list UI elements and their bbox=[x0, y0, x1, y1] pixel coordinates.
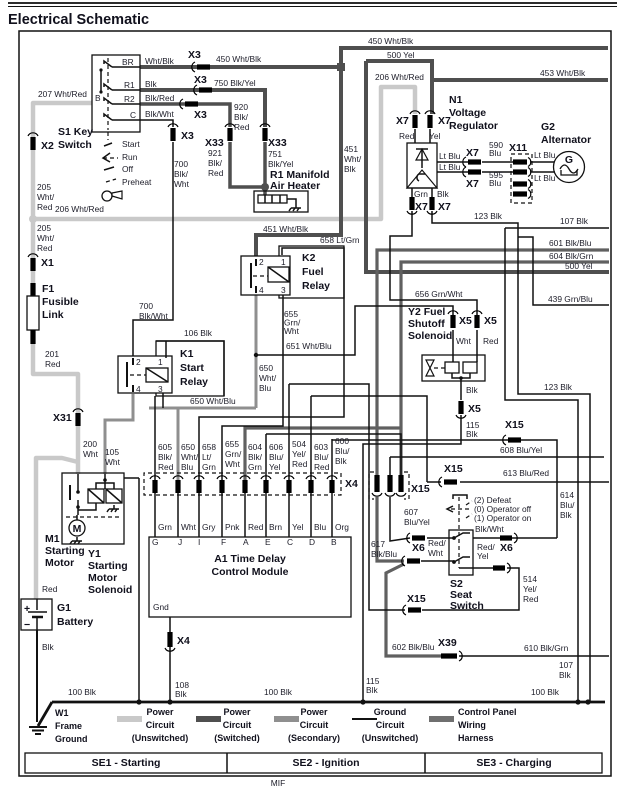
svg-text:X7: X7 bbox=[415, 201, 428, 213]
svg-text:205: 205 bbox=[37, 223, 51, 233]
svg-text:650: 650 bbox=[181, 442, 195, 452]
svg-text:Gnd: Gnd bbox=[153, 602, 169, 612]
svg-text:X7: X7 bbox=[466, 147, 479, 159]
svg-text:Power: Power bbox=[223, 707, 251, 717]
svg-text:617: 617 bbox=[371, 539, 385, 549]
svg-text:Blk/Blu: Blk/Blu bbox=[371, 549, 397, 559]
svg-text:Blk: Blk bbox=[560, 510, 572, 520]
svg-text:921: 921 bbox=[208, 148, 222, 158]
svg-text:602 Blk/Blu: 602 Blk/Blu bbox=[392, 642, 435, 652]
svg-text:D: D bbox=[309, 537, 315, 547]
svg-text:Wht: Wht bbox=[456, 336, 472, 346]
svg-text:Link: Link bbox=[42, 309, 64, 321]
svg-text:Brn: Brn bbox=[269, 522, 282, 532]
svg-text:X3: X3 bbox=[194, 74, 207, 86]
svg-text:Yel: Yel bbox=[269, 462, 280, 472]
svg-text:Blk/Yel: Blk/Yel bbox=[268, 159, 293, 169]
svg-text:Blk/: Blk/ bbox=[208, 158, 223, 168]
svg-text:Ground: Ground bbox=[55, 734, 88, 744]
svg-text:Control Module: Control Module bbox=[212, 566, 289, 578]
svg-text:Blk/: Blk/ bbox=[158, 452, 173, 462]
svg-text:Red: Red bbox=[208, 168, 224, 178]
svg-text:Red/: Red/ bbox=[428, 538, 446, 548]
svg-text:206 Wht/Red: 206 Wht/Red bbox=[55, 204, 104, 214]
svg-text:604: 604 bbox=[248, 442, 262, 452]
svg-text:Starting: Starting bbox=[88, 560, 128, 572]
svg-text:M1: M1 bbox=[45, 533, 60, 545]
svg-text:C: C bbox=[130, 110, 136, 120]
svg-text:751: 751 bbox=[268, 149, 282, 159]
svg-text:920: 920 bbox=[234, 102, 248, 112]
svg-text:G2: G2 bbox=[541, 121, 555, 133]
svg-text:Red: Red bbox=[42, 584, 58, 594]
svg-text:Blu/: Blu/ bbox=[314, 452, 329, 462]
svg-text:750 Blk/Yel: 750 Blk/Yel bbox=[214, 78, 256, 88]
svg-text:Blk/Red: Blk/Red bbox=[145, 93, 175, 103]
svg-text:X15: X15 bbox=[407, 593, 426, 605]
svg-text:Circuit: Circuit bbox=[300, 720, 329, 730]
svg-text:453 Wht/Blk: 453 Wht/Blk bbox=[540, 68, 586, 78]
svg-text:Ground: Ground bbox=[374, 707, 407, 717]
svg-text:X15: X15 bbox=[411, 483, 430, 495]
svg-text:606: 606 bbox=[269, 442, 283, 452]
svg-text:658: 658 bbox=[202, 442, 216, 452]
svg-text:Yel/: Yel/ bbox=[292, 449, 306, 459]
svg-text:X3: X3 bbox=[181, 130, 194, 142]
svg-text:Wht/: Wht/ bbox=[259, 373, 277, 383]
svg-text:613 Blu/Red: 613 Blu/Red bbox=[503, 468, 549, 478]
svg-text:Red: Red bbox=[234, 122, 250, 132]
svg-text:603: 603 bbox=[314, 442, 328, 452]
svg-text:207 Wht/Red: 207 Wht/Red bbox=[38, 89, 87, 99]
svg-text:1: 1 bbox=[281, 257, 286, 267]
svg-text:Blk: Blk bbox=[466, 429, 478, 439]
svg-text:I: I bbox=[198, 537, 200, 547]
svg-text:G1: G1 bbox=[57, 602, 71, 614]
svg-text:Control Panel: Control Panel bbox=[458, 707, 517, 717]
svg-text:X39: X39 bbox=[438, 637, 457, 649]
svg-text:X4: X4 bbox=[177, 635, 190, 647]
svg-text:650 Wht/Blu: 650 Wht/Blu bbox=[190, 396, 236, 406]
svg-text:Harness: Harness bbox=[458, 733, 494, 743]
svg-text:201: 201 bbox=[45, 349, 59, 359]
svg-text:Red: Red bbox=[292, 459, 308, 469]
svg-text:Power: Power bbox=[300, 707, 328, 717]
svg-text:Red: Red bbox=[399, 131, 415, 141]
svg-text:Off: Off bbox=[122, 164, 134, 174]
svg-text:F1: F1 bbox=[42, 283, 54, 295]
svg-text:R2: R2 bbox=[124, 94, 135, 104]
svg-text:100 Blk: 100 Blk bbox=[531, 687, 560, 697]
svg-text:500 Yel: 500 Yel bbox=[387, 50, 415, 60]
svg-text:107 Blk: 107 Blk bbox=[560, 216, 589, 226]
svg-text:K2: K2 bbox=[302, 252, 316, 264]
svg-text:658 Lt/Grn: 658 Lt/Grn bbox=[320, 235, 360, 245]
svg-text:Wht: Wht bbox=[105, 457, 121, 467]
svg-text:X2: X2 bbox=[41, 140, 54, 152]
svg-text:Wht/Blk: Wht/Blk bbox=[145, 56, 175, 66]
svg-text:Relay: Relay bbox=[302, 280, 330, 292]
svg-text:700: 700 bbox=[139, 301, 153, 311]
svg-text:Y1: Y1 bbox=[88, 548, 101, 560]
svg-text:Blu: Blu bbox=[489, 178, 501, 188]
svg-text:Wht/: Wht/ bbox=[37, 233, 55, 243]
svg-text:Pnk: Pnk bbox=[225, 522, 240, 532]
svg-text:Red: Red bbox=[483, 336, 499, 346]
svg-text:450 Wht/Blk: 450 Wht/Blk bbox=[216, 54, 262, 64]
svg-text:500 Yel: 500 Yel bbox=[565, 261, 593, 271]
svg-text:F: F bbox=[221, 537, 226, 547]
svg-text:E: E bbox=[265, 537, 271, 547]
svg-text:4: 4 bbox=[136, 384, 141, 394]
svg-text:Wht: Wht bbox=[225, 459, 241, 469]
svg-text:Switch: Switch bbox=[450, 600, 484, 612]
svg-text:Start: Start bbox=[122, 139, 140, 149]
svg-text:X7: X7 bbox=[396, 115, 409, 127]
svg-text:605: 605 bbox=[158, 442, 172, 452]
svg-text:Regulator: Regulator bbox=[449, 120, 498, 132]
svg-text:Wht: Wht bbox=[83, 449, 99, 459]
svg-text:Blk: Blk bbox=[366, 685, 378, 695]
svg-text:Circuit: Circuit bbox=[376, 720, 405, 730]
svg-text:Wht/: Wht/ bbox=[344, 154, 362, 164]
svg-text:(Secondary): (Secondary) bbox=[288, 733, 340, 743]
svg-text:Run: Run bbox=[122, 152, 138, 162]
svg-text:Blk/Wht: Blk/Wht bbox=[475, 524, 505, 534]
svg-text:Wht: Wht bbox=[428, 548, 444, 558]
svg-text:+: + bbox=[24, 603, 30, 615]
svg-text:MIF: MIF bbox=[271, 778, 285, 788]
svg-text:Yel/: Yel/ bbox=[523, 584, 537, 594]
svg-text:Blk/Wht: Blk/Wht bbox=[139, 311, 169, 321]
svg-text:Starting: Starting bbox=[45, 545, 85, 557]
svg-text:650: 650 bbox=[259, 363, 273, 373]
svg-text:Blk: Blk bbox=[145, 79, 157, 89]
svg-text:Grn: Grn bbox=[248, 462, 262, 472]
svg-text:504: 504 bbox=[292, 439, 306, 449]
svg-text:514: 514 bbox=[523, 574, 537, 584]
svg-text:106 Blk: 106 Blk bbox=[184, 328, 213, 338]
svg-text:Yel: Yel bbox=[429, 131, 440, 141]
svg-text:Blk/: Blk/ bbox=[248, 452, 263, 462]
svg-text:R1: R1 bbox=[124, 80, 135, 90]
svg-text:B: B bbox=[95, 93, 101, 103]
svg-text:607: 607 bbox=[404, 507, 418, 517]
svg-text:3: 3 bbox=[281, 285, 286, 295]
svg-text:Yel: Yel bbox=[477, 551, 488, 561]
svg-text:107: 107 bbox=[559, 660, 573, 670]
svg-text:−: − bbox=[24, 619, 30, 631]
svg-text:610 Blk/Grn: 610 Blk/Grn bbox=[524, 643, 569, 653]
svg-text:(Unswitched): (Unswitched) bbox=[132, 733, 189, 743]
svg-text:X7: X7 bbox=[438, 115, 451, 127]
svg-text:X33: X33 bbox=[268, 137, 287, 149]
svg-text:Gry: Gry bbox=[202, 522, 216, 532]
svg-text:X5: X5 bbox=[484, 315, 497, 327]
svg-text:X7: X7 bbox=[438, 201, 451, 213]
svg-text:Wht: Wht bbox=[181, 522, 197, 532]
svg-text:Blu/Yel: Blu/Yel bbox=[404, 517, 430, 527]
svg-text:X15: X15 bbox=[505, 419, 524, 431]
svg-text:200: 200 bbox=[83, 439, 97, 449]
svg-text:Wht/: Wht/ bbox=[37, 192, 55, 202]
svg-text:Y2 Fuel: Y2 Fuel bbox=[408, 306, 445, 318]
svg-text:Grn: Grn bbox=[202, 462, 216, 472]
svg-text:Blk/Wht: Blk/Wht bbox=[145, 109, 175, 119]
svg-text:2: 2 bbox=[136, 357, 141, 367]
svg-text:601 Blk/Blu: 601 Blk/Blu bbox=[549, 238, 592, 248]
svg-text:W1: W1 bbox=[55, 708, 69, 718]
svg-text:SE1 - Starting: SE1 - Starting bbox=[92, 757, 161, 769]
svg-text:Red: Red bbox=[37, 243, 53, 253]
svg-text:(Unswitched): (Unswitched) bbox=[362, 733, 419, 743]
svg-text:Grn/: Grn/ bbox=[225, 449, 242, 459]
svg-text:Battery: Battery bbox=[57, 616, 93, 628]
svg-text:Alternator: Alternator bbox=[541, 134, 591, 146]
svg-text:Solenoid: Solenoid bbox=[408, 330, 452, 342]
svg-text:Switch: Switch bbox=[58, 139, 92, 151]
svg-text:X5: X5 bbox=[459, 315, 472, 327]
svg-text:Blu/: Blu/ bbox=[560, 500, 575, 510]
svg-text:Red: Red bbox=[523, 594, 539, 604]
svg-text:J: J bbox=[178, 537, 182, 547]
svg-text:G: G bbox=[565, 154, 573, 166]
svg-text:Circuit: Circuit bbox=[223, 720, 252, 730]
svg-text:Grn: Grn bbox=[414, 189, 428, 199]
svg-text:X11: X11 bbox=[509, 142, 527, 154]
svg-text:Lt/: Lt/ bbox=[202, 452, 212, 462]
svg-text:4: 4 bbox=[259, 285, 264, 295]
svg-text:Power: Power bbox=[146, 707, 174, 717]
svg-text:(Switched): (Switched) bbox=[214, 733, 260, 743]
svg-text:Lt Blu: Lt Blu bbox=[439, 151, 461, 161]
svg-text:2: 2 bbox=[259, 257, 264, 267]
svg-text:X4: X4 bbox=[345, 478, 358, 490]
svg-text:X3: X3 bbox=[188, 49, 201, 61]
svg-text:Fusible: Fusible bbox=[42, 296, 79, 308]
svg-text:Voltage: Voltage bbox=[449, 107, 486, 119]
svg-text:655: 655 bbox=[225, 439, 239, 449]
svg-text:Org: Org bbox=[335, 522, 349, 532]
svg-text:123 Blk: 123 Blk bbox=[474, 211, 503, 221]
svg-text:700: 700 bbox=[174, 159, 188, 169]
svg-text:Wht: Wht bbox=[284, 326, 300, 336]
svg-text:1: 1 bbox=[158, 357, 163, 367]
svg-text:Blk/: Blk/ bbox=[174, 169, 189, 179]
svg-text:Solenoid: Solenoid bbox=[88, 584, 132, 596]
svg-text:Blk: Blk bbox=[437, 189, 449, 199]
svg-text:100 Blk: 100 Blk bbox=[68, 687, 97, 697]
svg-text:Blu/: Blu/ bbox=[269, 452, 284, 462]
svg-text:Lt Blu: Lt Blu bbox=[534, 173, 556, 183]
svg-text:600: 600 bbox=[335, 436, 349, 446]
svg-text:X1: X1 bbox=[41, 257, 54, 269]
svg-text:X7: X7 bbox=[466, 178, 479, 190]
svg-text:206 Wht/Red: 206 Wht/Red bbox=[375, 72, 424, 82]
svg-text:Red: Red bbox=[45, 359, 61, 369]
svg-text:Red: Red bbox=[314, 462, 330, 472]
svg-text:A1 Time Delay: A1 Time Delay bbox=[214, 553, 286, 565]
svg-text:BR: BR bbox=[122, 57, 134, 67]
svg-text:C: C bbox=[287, 537, 293, 547]
svg-text:Blu/: Blu/ bbox=[335, 446, 350, 456]
svg-text:S1 Key: S1 Key bbox=[58, 126, 93, 138]
svg-text:Relay: Relay bbox=[180, 376, 208, 388]
svg-text:Red: Red bbox=[248, 522, 264, 532]
svg-text:A: A bbox=[243, 537, 249, 547]
svg-text:Air Heater: Air Heater bbox=[270, 180, 320, 192]
svg-text:X5: X5 bbox=[468, 403, 481, 415]
svg-text:Circuit: Circuit bbox=[146, 720, 175, 730]
svg-text:Blk: Blk bbox=[335, 456, 347, 466]
svg-text:Blk: Blk bbox=[466, 385, 478, 395]
svg-text:439 Grn/Blu: 439 Grn/Blu bbox=[548, 294, 593, 304]
svg-text:K1: K1 bbox=[180, 348, 194, 360]
svg-text:Motor: Motor bbox=[88, 572, 117, 584]
svg-text:Blu: Blu bbox=[489, 148, 501, 158]
svg-text:105: 105 bbox=[105, 447, 119, 457]
svg-text:Blk: Blk bbox=[175, 689, 187, 699]
svg-text:123 Blk: 123 Blk bbox=[544, 382, 573, 392]
svg-text:3: 3 bbox=[158, 384, 163, 394]
svg-text:Shutoff: Shutoff bbox=[408, 318, 445, 330]
svg-text:Fuel: Fuel bbox=[302, 266, 324, 278]
svg-text:N1: N1 bbox=[449, 94, 463, 106]
svg-text:205: 205 bbox=[37, 182, 51, 192]
svg-text:Motor: Motor bbox=[45, 557, 74, 569]
svg-text:656 Grn/Wht: 656 Grn/Wht bbox=[415, 289, 463, 299]
svg-text:Blu: Blu bbox=[181, 462, 193, 472]
svg-text:Grn: Grn bbox=[158, 522, 172, 532]
svg-text:X15: X15 bbox=[444, 463, 463, 475]
svg-text:Frame: Frame bbox=[55, 721, 82, 731]
svg-text:X3: X3 bbox=[194, 109, 207, 121]
svg-text:Blk: Blk bbox=[559, 670, 571, 680]
svg-text:Wht/: Wht/ bbox=[181, 452, 199, 462]
svg-text:Preheat: Preheat bbox=[122, 177, 152, 187]
svg-text:X6: X6 bbox=[500, 542, 513, 554]
svg-text:614: 614 bbox=[560, 490, 574, 500]
svg-text:Blu: Blu bbox=[314, 522, 326, 532]
svg-text:100 Blk: 100 Blk bbox=[264, 687, 293, 697]
svg-text:604 Blk/Grn: 604 Blk/Grn bbox=[549, 251, 594, 261]
svg-text:Lt Blu: Lt Blu bbox=[439, 162, 461, 172]
svg-text:Yel: Yel bbox=[292, 522, 303, 532]
svg-text:(1) Operator on: (1) Operator on bbox=[474, 513, 532, 523]
svg-text:451: 451 bbox=[344, 144, 358, 154]
svg-text:Blu: Blu bbox=[259, 383, 271, 393]
svg-text:Start: Start bbox=[180, 362, 204, 374]
svg-text:451 Wht/Blk: 451 Wht/Blk bbox=[263, 224, 309, 234]
svg-text:651 Wht/Blu: 651 Wht/Blu bbox=[286, 341, 332, 351]
svg-text:Lt Blu: Lt Blu bbox=[534, 150, 556, 160]
svg-text:X6: X6 bbox=[412, 542, 425, 554]
svg-text:SE2 - Ignition: SE2 - Ignition bbox=[292, 757, 359, 769]
svg-text:Wht: Wht bbox=[174, 179, 190, 189]
svg-text:608 Blu/Yel: 608 Blu/Yel bbox=[500, 445, 542, 455]
svg-text:SE3 - Charging: SE3 - Charging bbox=[476, 757, 551, 769]
svg-text:X31: X31 bbox=[53, 412, 72, 424]
svg-text:Blk: Blk bbox=[344, 164, 356, 174]
svg-text:Electrical Schematic: Electrical Schematic bbox=[8, 12, 149, 28]
svg-text:Red: Red bbox=[158, 462, 174, 472]
svg-text:Blk/: Blk/ bbox=[234, 112, 249, 122]
svg-text:G: G bbox=[152, 537, 159, 547]
svg-text:450 Wht/Blk: 450 Wht/Blk bbox=[368, 36, 414, 46]
svg-text:Blk: Blk bbox=[42, 642, 54, 652]
svg-text:Wiring: Wiring bbox=[458, 720, 486, 730]
svg-text:M: M bbox=[73, 523, 82, 535]
svg-text:B: B bbox=[331, 537, 337, 547]
svg-text:Red: Red bbox=[37, 202, 53, 212]
